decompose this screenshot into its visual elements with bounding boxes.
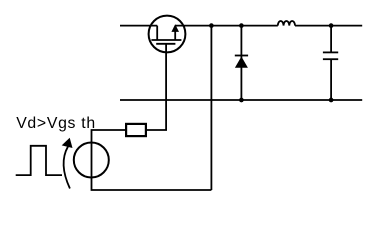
wire: gate-drive return vertical (Q1 source node down) — [210, 26, 212, 190]
wire: resistor to source V1 and bottom return — [92, 130, 212, 190]
capacitor C1 — [323, 26, 338, 100]
diode D1 — [235, 26, 248, 100]
transistor Q1 (MOSFET) — [149, 16, 186, 53]
wire top rail: Q1 source to inductor — [175, 25, 278, 27]
curved arrow — [62, 138, 73, 189]
node: capacitor top junction dot — [329, 23, 334, 28]
wire: gate lead from Q1 down to resistor — [146, 44, 166, 130]
node: switch node junction dot — [209, 23, 214, 28]
pulse waveform icon — [16, 146, 62, 175]
node: capacitor bottom junction dot — [329, 98, 334, 103]
node: diode top junction dot — [239, 23, 244, 28]
svg-text:Vd>Vgs th: Vd>Vgs th — [16, 115, 96, 132]
wire top rail: inductor to right end — [295, 25, 362, 27]
node: diode bottom junction dot — [239, 98, 244, 103]
wire bottom rail — [120, 99, 362, 101]
voltage source V1 (pulse source circle) — [74, 143, 109, 178]
resistor R1 (gate resistor) — [126, 124, 146, 136]
wire top rail: left end to Q1 drain — [120, 25, 157, 27]
inductor L1 — [278, 21, 295, 26]
